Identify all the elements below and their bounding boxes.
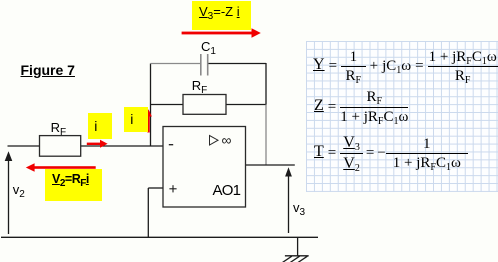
- svg-text:∞: ∞: [222, 132, 232, 148]
